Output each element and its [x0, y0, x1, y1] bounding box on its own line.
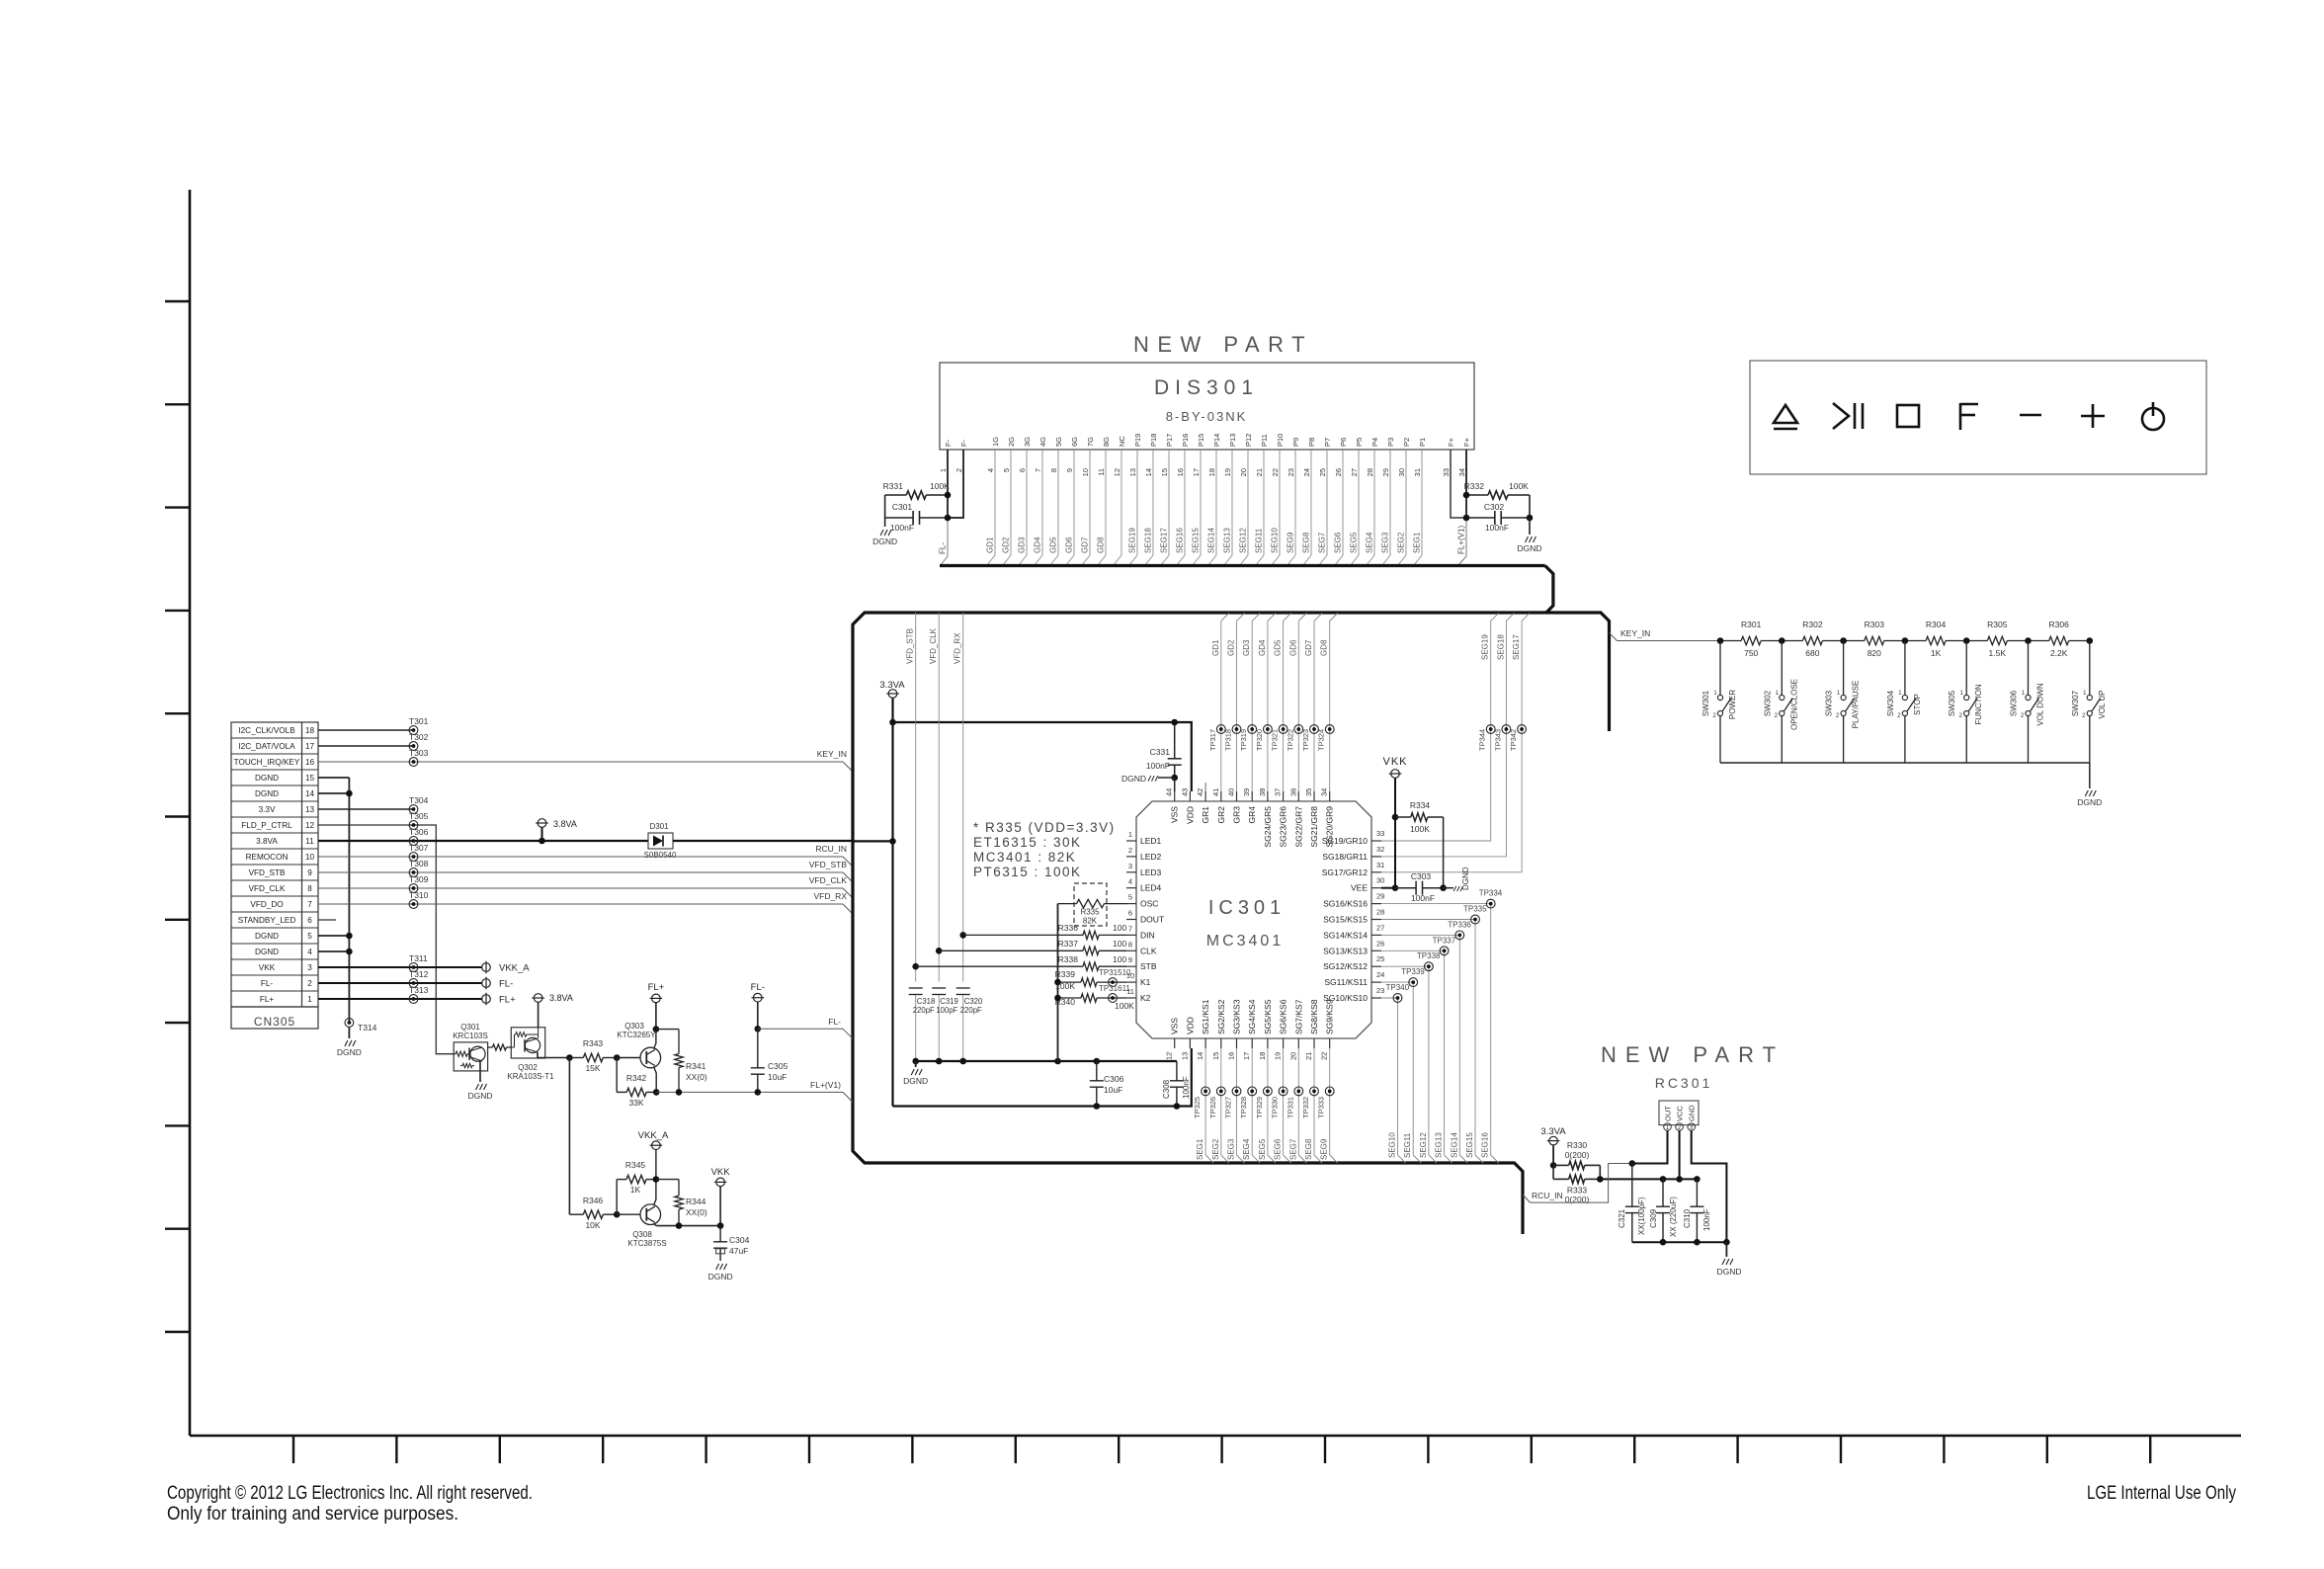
icon minus [2020, 414, 2041, 417]
switch SW307 (VOL UP) [2089, 641, 2091, 696]
IC301 pin 28 (SG15/KS15) [1371, 919, 1381, 921]
node C310 top [1694, 1176, 1701, 1183]
svg-text:SEG18: SEG18 [1144, 528, 1153, 553]
svg-text:VFD_STB: VFD_STB [809, 860, 848, 869]
bus entry SEG12 [1429, 1155, 1437, 1163]
test point TP331 [1294, 1087, 1303, 1096]
svg-text:GD3: GD3 [1242, 639, 1251, 656]
svg-text:SG6/KS6: SG6/KS6 [1279, 999, 1288, 1034]
svg-text:TP333: TP333 [1317, 1097, 1326, 1118]
wire CN305 pin4 DGND [318, 950, 349, 952]
test point TP319 [1248, 725, 1257, 734]
svg-text:Q301: Q301 [460, 1023, 480, 1032]
bus entry SEG13 [1445, 1155, 1452, 1163]
svg-text:P3: P3 [1386, 438, 1395, 447]
wire SEG17 column [1381, 614, 1530, 872]
svg-text:31: 31 [1376, 861, 1384, 869]
wire GD3 column [1251, 621, 1253, 792]
svg-text:FLD_P_CTRL: FLD_P_CTRL [241, 821, 292, 830]
svg-text:Q303: Q303 [624, 1022, 644, 1031]
svg-text:F+: F+ [1447, 437, 1455, 447]
IC301 pin 19 (SG6/KS6) [1283, 1038, 1285, 1048]
svg-text:20: 20 [1288, 1052, 1297, 1060]
svg-text:11: 11 [305, 837, 314, 846]
wire VEE net [1381, 887, 1395, 889]
IC301 pin 12 (VSS) [1174, 1038, 1176, 1048]
wire SEG16 column [1381, 904, 1491, 1155]
svg-text:100pF: 100pF [936, 1006, 957, 1015]
svg-text:SG24/GR5: SG24/GR5 [1263, 806, 1273, 848]
svg-text:10uF: 10uF [768, 1072, 787, 1082]
svg-text:TP320: TP320 [1255, 729, 1264, 751]
svg-text:I2C_DAT/VOLA: I2C_DAT/VOLA [238, 742, 295, 751]
svg-text:GD3: GD3 [1018, 537, 1027, 553]
switch SW302 (OPEN/CLOSE) [1781, 641, 1783, 696]
svg-text:2.2K: 2.2K [2050, 648, 2068, 658]
svg-text:R333: R333 [1567, 1186, 1588, 1196]
node key ladder SW305 [1963, 637, 1970, 644]
svg-text:RC301: RC301 [1655, 1075, 1713, 1091]
wire CN305 pin16 KEY_IN [318, 761, 843, 763]
svg-text:SEG9: SEG9 [1286, 532, 1295, 553]
wire Q303 emitter [654, 1067, 657, 1093]
ruler tick left 6 [165, 815, 190, 817]
svg-text:SEG1: SEG1 [1196, 1138, 1204, 1160]
svg-text:VSS: VSS [1170, 806, 1180, 823]
svg-text:GD7: GD7 [1304, 639, 1313, 656]
wire Q308 emitter [654, 1224, 657, 1226]
svg-text:T307: T307 [409, 843, 429, 853]
svg-text:C308: C308 [1162, 1079, 1171, 1099]
node DGND pin5 [346, 933, 353, 940]
svg-text:1K: 1K [1931, 648, 1942, 658]
node VCC pin [1676, 1176, 1683, 1183]
svg-text:220pF: 220pF [913, 1006, 935, 1015]
svg-text:TP327: TP327 [1224, 1097, 1233, 1118]
capacitor C308 [1176, 1061, 1178, 1081]
capacitor C305 [757, 1029, 759, 1068]
wire CN305 pin14 DGND [318, 792, 349, 794]
svg-text:SEG6: SEG6 [1274, 1138, 1283, 1160]
svg-text:9: 9 [1128, 955, 1132, 964]
svg-text:P19: P19 [1133, 434, 1142, 447]
svg-text:15: 15 [305, 774, 315, 783]
resistor R302 [1782, 640, 1802, 642]
svg-text:1: 1 [307, 995, 312, 1004]
svg-text:SEG1: SEG1 [1413, 532, 1422, 553]
svg-text:P14: P14 [1212, 434, 1221, 447]
svg-text:100nF: 100nF [1702, 1208, 1711, 1231]
svg-text:R303: R303 [1865, 619, 1885, 629]
svg-text:TP319: TP319 [1239, 729, 1248, 751]
bus entry GD8 [1330, 614, 1338, 621]
svg-text:SEG17: SEG17 [1512, 634, 1521, 660]
svg-text:R304: R304 [1926, 619, 1947, 629]
IC301 pin 21 (SG8/KS8) [1313, 1038, 1315, 1048]
svg-text:27: 27 [1376, 923, 1384, 932]
svg-text:2: 2 [307, 979, 312, 988]
svg-text:XX(0): XX(0) [686, 1072, 707, 1082]
svg-text:DGND: DGND [255, 789, 279, 798]
svg-text:SEG12: SEG12 [1419, 1132, 1428, 1158]
svg-text:R334: R334 [1410, 800, 1431, 810]
svg-text:100K: 100K [1509, 481, 1529, 491]
svg-text:REMOCON: REMOCON [246, 853, 289, 862]
IC301 pin 34 (SG20/GR9) [1329, 791, 1331, 801]
svg-text:TP325: TP325 [1193, 1097, 1202, 1118]
ruler tick bottom 7 [911, 1436, 913, 1463]
svg-text:SEG15: SEG15 [1192, 528, 1201, 553]
svg-text:TOUCH_IRQ/KEY: TOUCH_IRQ/KEY [234, 758, 300, 767]
svg-text:100K: 100K [1410, 824, 1430, 834]
svg-text:SG20/GR9: SG20/GR9 [1325, 806, 1335, 848]
svg-text:KEY_IN: KEY_IN [817, 749, 847, 759]
node Q308 base [614, 1211, 621, 1218]
svg-text:C304: C304 [729, 1235, 750, 1245]
svg-text:FL-: FL- [261, 979, 274, 988]
svg-text:12: 12 [1165, 1052, 1174, 1060]
border ruler bottom edge [190, 1435, 2241, 1438]
wire Q303 collector [654, 1030, 656, 1049]
svg-text:8G: 8G [1102, 437, 1111, 447]
svg-text:SEG3: SEG3 [1381, 532, 1390, 553]
svg-text:TP332: TP332 [1301, 1097, 1310, 1118]
svg-text:23: 23 [1286, 468, 1295, 476]
ground DGND (rail) [915, 1061, 917, 1067]
svg-text:RCU_IN: RCU_IN [1532, 1191, 1563, 1200]
svg-text:SEG19: SEG19 [1128, 528, 1137, 553]
wire SEG15 column [1381, 920, 1475, 1156]
svg-text:SEG4: SEG4 [1366, 532, 1374, 553]
resistor R306 [2029, 640, 2049, 642]
resistor R335 (OSC) [1058, 903, 1077, 905]
svg-text:C306: C306 [1104, 1074, 1124, 1084]
node C306 rail [1094, 1058, 1101, 1065]
svg-text:P6: P6 [1339, 438, 1348, 447]
svg-text:T314: T314 [358, 1023, 377, 1032]
power terminal 3.8VA (row) [538, 819, 546, 828]
svg-text:2G: 2G [1007, 437, 1016, 447]
svg-text:NC: NC [1118, 436, 1126, 447]
ruler tick bottom 18 [2046, 1436, 2048, 1463]
ruler tick bottom 1 [292, 1436, 294, 1463]
svg-text:R337: R337 [1058, 939, 1079, 949]
wire SEG5 column [1267, 1048, 1269, 1155]
svg-text:7: 7 [307, 900, 312, 909]
terminal FL- (row) [482, 979, 491, 988]
resistor R337 (CLK) [939, 950, 1083, 951]
wire SEG3 column [1236, 1048, 1238, 1155]
key legend box [1750, 361, 2206, 474]
wire CN305 pin3 VKK [318, 966, 482, 968]
svg-text:R335: R335 [1080, 908, 1100, 917]
svg-text:32: 32 [1376, 845, 1384, 854]
svg-text:SEG14: SEG14 [1207, 528, 1216, 553]
svg-text:SW305: SW305 [1948, 690, 1956, 716]
node VFD_CLK resistor tap [936, 948, 943, 954]
svg-text:GD4: GD4 [1034, 537, 1042, 553]
resistor R333 [1553, 1178, 1569, 1180]
wire GD8 column [1329, 621, 1331, 792]
svg-text:15K: 15K [585, 1063, 600, 1073]
node C310 bottom [1694, 1239, 1701, 1246]
wire GD4 column [1267, 621, 1269, 792]
svg-text:XX (220uF): XX (220uF) [1669, 1197, 1678, 1237]
svg-text:20: 20 [1239, 468, 1248, 476]
svg-text:DGND: DGND [1716, 1267, 1741, 1277]
svg-text:TP331: TP331 [1286, 1097, 1294, 1118]
svg-text:220pF: 220pF [960, 1006, 982, 1015]
svg-text:P7: P7 [1323, 438, 1332, 447]
svg-text:GND: GND [1688, 1105, 1697, 1121]
svg-text:GD8: GD8 [1320, 639, 1329, 656]
wire SEG1 column [1204, 1048, 1206, 1155]
svg-text:21: 21 [1304, 1052, 1313, 1060]
svg-text:T305: T305 [409, 811, 429, 821]
svg-text:1K: 1K [630, 1185, 641, 1195]
svg-text:DGND: DGND [2077, 797, 2102, 807]
svg-text:VDD: VDD [1185, 1017, 1195, 1034]
wire CN305 pin8 VFD_CLK [318, 887, 843, 889]
bus exit RCU_IN bottom [1523, 1195, 1531, 1202]
svg-text:T309: T309 [409, 874, 429, 884]
svg-text:I2C_CLK/VOLB: I2C_CLK/VOLB [238, 726, 295, 735]
node C308 bottom [1174, 1103, 1181, 1110]
svg-text:VSS: VSS [1170, 1018, 1180, 1034]
test point TP330 [1279, 1087, 1287, 1096]
test point TP320 [1264, 725, 1273, 734]
wire key ladder return rail [1720, 762, 2090, 764]
svg-text:8: 8 [307, 884, 312, 893]
svg-text:GD1: GD1 [1211, 639, 1220, 656]
svg-text:OPEN/CLOSE: OPEN/CLOSE [1789, 679, 1798, 730]
svg-text:F-: F- [944, 439, 953, 447]
svg-text:4G: 4G [1038, 437, 1047, 447]
svg-text:VKK: VKK [259, 963, 276, 972]
svg-text:6: 6 [307, 916, 312, 925]
border ruler left edge [189, 190, 192, 1436]
ruler tick bottom 17 [1943, 1436, 1945, 1463]
svg-text:SEG4: SEG4 [1242, 1138, 1251, 1160]
svg-text:TP323: TP323 [1301, 729, 1310, 751]
ground DGND (key ladder) [2089, 763, 2091, 788]
svg-text:P15: P15 [1197, 434, 1205, 447]
svg-text:FL+: FL+ [499, 995, 516, 1006]
bus entry SEG5 [1268, 1155, 1276, 1163]
resistor R341 [678, 1030, 680, 1054]
wire GD5 column [1283, 621, 1285, 792]
svg-text:36: 36 [1288, 788, 1297, 796]
svg-text:3.3VA: 3.3VA [879, 680, 905, 691]
wire R332 right leg [1529, 495, 1531, 518]
svg-text:SEG14: SEG14 [1450, 1132, 1458, 1158]
svg-text:5: 5 [1128, 893, 1132, 902]
svg-text:SW304: SW304 [1886, 690, 1895, 716]
svg-text:P2: P2 [1402, 438, 1411, 447]
test point TP333 [1325, 1087, 1334, 1096]
svg-text:FL+(V1): FL+(V1) [810, 1080, 841, 1090]
ruler tick bottom 4 [602, 1436, 604, 1463]
svg-text:25: 25 [1318, 468, 1327, 476]
wire 3.8VA into box [853, 840, 893, 842]
node RCU feed [889, 838, 896, 845]
svg-text:DGND: DGND [1517, 543, 1541, 553]
svg-text:23: 23 [1376, 986, 1384, 995]
node Q308 collector R345 [653, 1176, 660, 1183]
node R340 tap [1054, 995, 1061, 1002]
node R333 right [1597, 1176, 1604, 1183]
node DGND pin14 [346, 790, 353, 797]
node FL- net [755, 1026, 762, 1032]
test point TP322 [1294, 725, 1303, 734]
node VSS 3.3VA rail [1171, 719, 1178, 726]
IC301 pin 3 (LED3) [1126, 871, 1136, 873]
ruler tick bottom 5 [705, 1436, 706, 1463]
display DIS301 body [940, 363, 1474, 450]
svg-text:VEE: VEE [1351, 883, 1368, 893]
test point TP338 [1425, 962, 1434, 971]
icon play/pause [1833, 403, 1849, 429]
svg-text:14: 14 [1144, 468, 1153, 476]
capacitor C320 [956, 987, 970, 989]
svg-text:T308: T308 [409, 859, 429, 868]
IC301 pin 27 (SG14/KS14) [1371, 934, 1381, 936]
svg-text:5: 5 [307, 932, 312, 941]
svg-text:11: 11 [1097, 468, 1106, 476]
svg-text:GR2: GR2 [1216, 806, 1226, 824]
svg-text:VKK: VKK [1382, 756, 1407, 768]
svg-text:4: 4 [986, 468, 995, 472]
bus entry GD7 [1314, 614, 1322, 621]
svg-text:SEG16: SEG16 [1481, 1132, 1490, 1158]
svg-text:DGND: DGND [903, 1076, 928, 1086]
terminal FL- (C305) [754, 993, 763, 1002]
svg-text:KTC3265Y: KTC3265Y [617, 1031, 656, 1039]
test point TP318 [1232, 725, 1241, 734]
wire SEG11 column [1381, 982, 1413, 1155]
wire VDD bottom rail [893, 1048, 1192, 1107]
svg-text:P5: P5 [1355, 438, 1364, 447]
capacitor C321 [1631, 1164, 1633, 1207]
test point T312 [409, 979, 418, 988]
switch SW303 (PLAY/PAUSE) [1843, 641, 1845, 696]
test point TP334 [1486, 899, 1495, 908]
svg-text:VDD: VDD [1185, 806, 1195, 824]
svg-text:IC301: IC301 [1208, 897, 1286, 919]
svg-text:KRA103S-T1: KRA103S-T1 [507, 1072, 554, 1081]
wire SEG2 column [1220, 1048, 1222, 1155]
ruler tick bottom 11 [1324, 1436, 1326, 1463]
svg-text:R306: R306 [2049, 619, 2070, 629]
bus entry SEG9 [1330, 1155, 1338, 1163]
test point T311 [409, 963, 418, 972]
svg-text:SG18/GR11: SG18/GR11 [1322, 852, 1368, 862]
svg-text:SG3/KS3: SG3/KS3 [1232, 999, 1242, 1034]
IC301 pin 44 (VSS) [1174, 791, 1176, 801]
wire R331 left leg [884, 495, 886, 527]
svg-text:18: 18 [305, 726, 315, 735]
svg-text:Q302: Q302 [518, 1063, 538, 1072]
svg-text:SG12/KS12: SG12/KS12 [1323, 961, 1368, 971]
node GND rail [1723, 1239, 1730, 1246]
svg-text:SW302: SW302 [1763, 690, 1772, 716]
svg-text:3: 3 [307, 963, 312, 972]
svg-text:LGE Internal Use Only: LGE Internal Use Only [2087, 1483, 2236, 1504]
icon eject [1774, 405, 1797, 423]
svg-text:44: 44 [1165, 788, 1174, 796]
svg-text:KEY_IN: KEY_IN [1620, 628, 1650, 638]
test point T301 [409, 726, 418, 735]
test point T313 [409, 995, 418, 1004]
svg-text:SG1/KS1: SG1/KS1 [1201, 999, 1210, 1034]
svg-text:DGND: DGND [255, 774, 279, 783]
svg-text:17: 17 [305, 742, 315, 751]
svg-text:T311: T311 [409, 953, 428, 963]
svg-text:PT6315 : 100K: PT6315 : 100K [973, 865, 1082, 879]
svg-text:C318: C318 [917, 997, 936, 1006]
test point T305 [409, 821, 418, 830]
svg-text:680: 680 [1805, 648, 1819, 658]
test point TP343 [1502, 725, 1511, 734]
svg-text:3.3VA: 3.3VA [1540, 1126, 1566, 1137]
resistor R304 [1905, 640, 1926, 642]
bus entry SEG14 [1459, 1155, 1467, 1163]
svg-text:3.8VA: 3.8VA [549, 993, 573, 1003]
ruler tick bottom 10 [1220, 1436, 1222, 1463]
svg-text:3: 3 [1128, 862, 1132, 870]
svg-text:OUT: OUT [1664, 1106, 1673, 1121]
svg-text:SEG7: SEG7 [1318, 532, 1327, 553]
wire GD6 column [1297, 621, 1299, 792]
ruler tick bottom 2 [395, 1436, 397, 1463]
node C319 ground rail [936, 1058, 943, 1065]
node VKK emitter [717, 1222, 724, 1229]
svg-text:VOL UP: VOL UP [2098, 690, 2107, 718]
svg-text:TP324: TP324 [1317, 729, 1326, 751]
svg-text:GD5: GD5 [1049, 537, 1058, 553]
IC301 pin 22 (SG9/KS9) [1329, 1038, 1331, 1048]
svg-text:POWER: POWER [1728, 690, 1737, 719]
test point TP344 [1486, 725, 1495, 734]
svg-text:28: 28 [1366, 468, 1374, 476]
IC301 pin 8 (CLK) [1126, 950, 1136, 951]
ruler tick left 5 [165, 712, 190, 714]
svg-text:GD2: GD2 [1227, 639, 1236, 656]
wire GR1 stub [1204, 783, 1206, 791]
test point T310 [409, 900, 418, 909]
svg-text:OSC: OSC [1140, 899, 1158, 909]
wire Q301 emitter ground [479, 1061, 481, 1083]
svg-text:SG7/KS7: SG7/KS7 [1293, 999, 1303, 1034]
wire Q302 collector [538, 1052, 569, 1058]
wire SEG6 column [1283, 1048, 1285, 1155]
wire CN305 pin1 FL+ [318, 998, 482, 1000]
bus entry GD3 [1252, 614, 1260, 621]
wire SEG12 column [1381, 966, 1429, 1155]
test point TP31510 [1109, 978, 1118, 987]
svg-text:TP328: TP328 [1239, 1097, 1248, 1118]
ruler tick left 8 [165, 1022, 190, 1024]
svg-text:DIN: DIN [1140, 930, 1155, 940]
svg-text:GR1: GR1 [1201, 806, 1210, 824]
svg-text:100: 100 [1113, 939, 1126, 949]
svg-text:DGND: DGND [872, 537, 897, 546]
icon power [2142, 408, 2164, 430]
IC301 pin 1 (LED1) [1126, 840, 1136, 842]
svg-text:VOL DOWN: VOL DOWN [2036, 683, 2045, 725]
node C309 top [1660, 1176, 1667, 1183]
svg-text:C301: C301 [892, 502, 913, 512]
